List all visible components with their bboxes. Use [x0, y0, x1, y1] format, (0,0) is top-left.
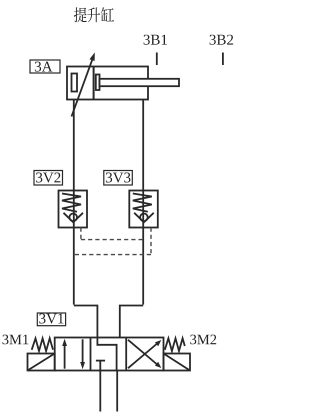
- wire cylinder right port down to 3V3: [142, 100, 144, 305]
- label box 3V2: [34, 171, 63, 186]
- right position crossed arrow 2: [128, 340, 158, 365]
- label 3M2: [190, 335, 216, 345]
- centre position: port A elbow to bottom port: [97, 338, 116, 371]
- cylinder 3A body: [67, 67, 148, 100]
- label 3M1: [3, 335, 29, 345]
- position divider 1: [90, 338, 92, 371]
- valve 3V1 body: [55, 338, 164, 371]
- pilot line from 3V3: [74, 228, 151, 255]
- wire elbow to valve port A: [74, 306, 98, 338]
- 3V3 ball: [140, 214, 148, 222]
- label 3B1: [144, 35, 167, 45]
- sensor tick 3B2: [222, 53, 224, 66]
- solenoid 3M1 box: [28, 354, 55, 371]
- left position up arrow: [64, 343, 66, 369]
- bottom port R line: [116, 371, 118, 412]
- solenoid 3M2 box: [164, 354, 191, 371]
- label box 3V1: [37, 313, 65, 326]
- check valve 3V2 body: [59, 191, 88, 228]
- label 3B2: [210, 35, 234, 45]
- spring left: [32, 338, 53, 351]
- solenoid 3M1 diagonal: [28, 354, 55, 371]
- 3V2 ball: [69, 214, 77, 222]
- 3V2 spring: [62, 194, 81, 212]
- left position down arrow: [82, 339, 84, 365]
- label box 3V3: [104, 171, 133, 186]
- spring right: [165, 338, 185, 351]
- title 提升缸: [74, 7, 114, 22]
- bottom port P line: [99, 371, 101, 412]
- 3V3 seat: [134, 213, 154, 223]
- piston rod: [100, 79, 180, 86]
- label box 3A: [30, 60, 60, 73]
- wire elbow to valve port B: [120, 306, 143, 338]
- piston rod collar: [96, 75, 100, 91]
- sensor tick 3B1: [156, 53, 158, 66]
- adjustment arrow through cylinder: [72, 60, 93, 117]
- centre position: blocked P port: [96, 360, 105, 362]
- wire cylinder left port down to 3V2: [73, 100, 75, 305]
- pilot line from 3V2: [81, 228, 143, 240]
- 3V2 seat: [64, 213, 84, 223]
- check valve 3V3 body: [129, 191, 158, 228]
- cylinder piston: [93, 67, 95, 100]
- position divider 2: [125, 338, 127, 371]
- cylinder cushion sleeve: [72, 74, 78, 92]
- 3V3 spring: [133, 194, 152, 212]
- solenoid 3M2 diagonal: [164, 354, 191, 371]
- right position crossed arrow 1: [128, 343, 158, 368]
